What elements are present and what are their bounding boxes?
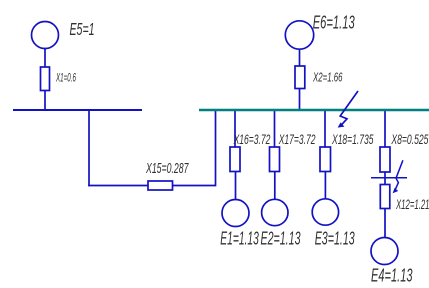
wire X18 to E3 — [324, 172, 326, 199]
reactor X12 — [380, 185, 390, 209]
wire X15 to node — [173, 185, 216, 187]
fault arrow K1 on bus 2 — [340, 91, 358, 126]
svg-text:E4=1.13: E4=1.13 — [371, 266, 413, 286]
reactor X2 — [295, 66, 305, 89]
svg-text:X17=3.72: X17=3.72 — [278, 132, 316, 147]
svg-text:E1=1.13: E1=1.13 — [220, 229, 258, 249]
wire E6 to X2 — [299, 49, 301, 66]
wire E5 to X1 — [44, 49, 46, 68]
generator E2 — [262, 199, 288, 225]
wire bus2 to X8 — [384, 109, 386, 147]
svg-text:X8=0.525: X8=0.525 — [391, 132, 429, 147]
node K2 fault line — [371, 177, 407, 179]
fault arrow K2 at X8/X12 node — [395, 160, 403, 190]
svg-text:E5=1: E5=1 — [70, 19, 95, 39]
generator E6 — [285, 21, 313, 49]
reactor X16 — [230, 147, 240, 172]
svg-text:X2=1.66: X2=1.66 — [312, 70, 343, 85]
svg-text:X16=3.72: X16=3.72 — [233, 132, 271, 147]
svg-text:X15=0.287: X15=0.287 — [145, 161, 189, 177]
wire X16 to E1 — [235, 172, 237, 201]
wire X2 to bus 2 — [299, 89, 301, 110]
reactor X17 — [270, 147, 280, 172]
wire node to bus 2 — [215, 109, 217, 186]
wire X8 to X12 — [384, 172, 386, 185]
wire bus2 to X16 — [234, 109, 236, 147]
generator E3 — [312, 199, 338, 225]
svg-text:X12=1.21: X12=1.21 — [395, 197, 429, 212]
wire bus drop at x89 — [88, 110, 90, 186]
wire to X15 — [88, 185, 148, 187]
generator E4 — [371, 238, 398, 265]
svg-text:E3=1.13: E3=1.13 — [315, 229, 355, 249]
reactor X18 — [320, 147, 331, 172]
generator E5 — [32, 22, 59, 49]
reactor X15 — [148, 181, 173, 190]
wire X1 to left bus — [44, 91, 46, 111]
svg-text:X1=0.6: X1=0.6 — [55, 71, 76, 85]
reactor X8 — [380, 147, 390, 172]
reactor X1 — [41, 67, 50, 91]
wire bus2 to X18 — [324, 109, 326, 147]
bus left — [13, 109, 142, 111]
svg-text:E6=1.13: E6=1.13 — [313, 12, 355, 32]
wire X12 to E4 — [384, 209, 386, 238]
svg-text:E2=1.13: E2=1.13 — [261, 229, 301, 249]
svg-text:X18=1.735: X18=1.735 — [331, 132, 373, 147]
bus 2 (generator bus, teal) — [199, 109, 429, 112]
wire bus2 to X17 — [274, 109, 276, 147]
generator E1 — [222, 200, 249, 227]
wire X17 to E2 — [274, 172, 276, 200]
